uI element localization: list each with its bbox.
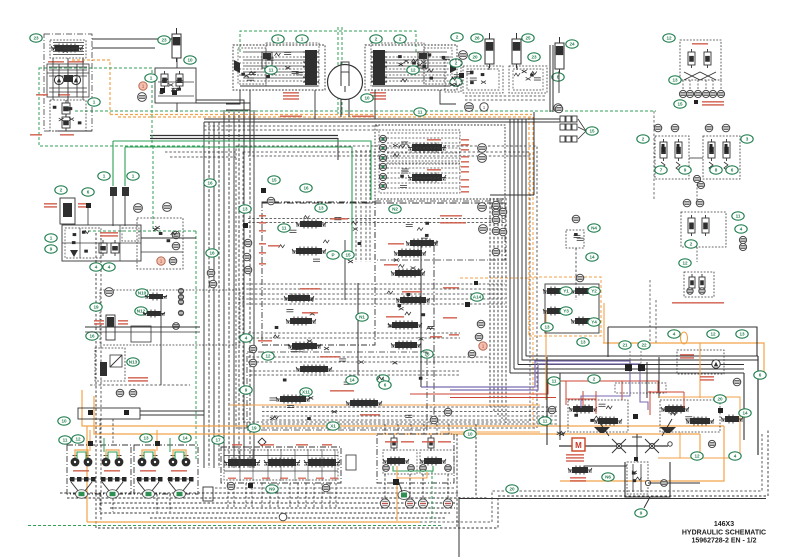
- svg-text:HYDRAULIC SCHEMATIC: HYDRAULIC SCHEMATIC: [682, 530, 766, 537]
- svg-text:9: 9: [50, 247, 53, 252]
- svg-text:1: 1: [150, 76, 153, 81]
- svg-text:X1: X1: [330, 424, 336, 429]
- svg-text:2: 2: [60, 188, 63, 193]
- svg-text:12: 12: [710, 332, 716, 337]
- svg-text:13: 13: [242, 207, 248, 212]
- svg-text:20: 20: [472, 55, 478, 60]
- svg-text:21: 21: [622, 343, 628, 348]
- svg-text:7: 7: [660, 168, 663, 173]
- svg-text:8: 8: [715, 168, 718, 173]
- svg-text:11: 11: [552, 379, 557, 384]
- svg-text:12: 12: [666, 36, 672, 41]
- svg-text:9: 9: [640, 511, 643, 516]
- svg-text:14: 14: [349, 378, 355, 383]
- svg-text:N6: N6: [605, 475, 611, 480]
- svg-text:16: 16: [303, 186, 309, 191]
- svg-text:1: 1: [277, 37, 280, 42]
- svg-text:4: 4: [108, 265, 111, 270]
- svg-text:N9: N9: [269, 487, 275, 492]
- svg-text:26: 26: [474, 36, 480, 41]
- svg-text:1: 1: [132, 174, 135, 179]
- svg-text:22: 22: [641, 343, 647, 348]
- svg-text:6: 6: [759, 373, 762, 378]
- svg-text:10: 10: [364, 96, 370, 101]
- svg-text:13: 13: [580, 340, 586, 345]
- svg-text:6: 6: [87, 190, 90, 195]
- svg-text:N2: N2: [392, 207, 398, 212]
- svg-text:P: P: [331, 253, 334, 258]
- svg-text:Y1: Y1: [563, 289, 569, 294]
- svg-text:17: 17: [215, 438, 221, 443]
- svg-text:14: 14: [182, 436, 188, 441]
- svg-text:13: 13: [739, 332, 745, 337]
- svg-text:Y3: Y3: [563, 309, 569, 314]
- svg-text:12: 12: [75, 437, 81, 442]
- svg-text:4: 4: [673, 332, 676, 337]
- svg-text:15: 15: [589, 129, 595, 134]
- svg-text:14: 14: [589, 255, 595, 260]
- svg-text:20: 20: [717, 397, 723, 402]
- svg-text:11: 11: [736, 214, 741, 219]
- svg-text:23: 23: [531, 55, 537, 60]
- svg-text:10: 10: [187, 58, 193, 63]
- svg-text:13: 13: [318, 206, 324, 211]
- svg-text:9: 9: [245, 388, 248, 393]
- svg-text:146X3: 146X3: [714, 521, 734, 528]
- svg-text:12: 12: [694, 454, 700, 459]
- svg-text:A14: A14: [473, 295, 482, 300]
- svg-text:4: 4: [734, 454, 737, 459]
- svg-text:6: 6: [384, 383, 387, 388]
- svg-text:2: 2: [375, 37, 378, 42]
- svg-text:10: 10: [61, 419, 67, 424]
- svg-text:4: 4: [245, 336, 248, 341]
- svg-text:25: 25: [525, 36, 531, 41]
- svg-text:N13: N13: [129, 360, 138, 365]
- svg-text:2: 2: [455, 61, 458, 66]
- svg-text:16: 16: [207, 181, 213, 186]
- svg-text:19: 19: [93, 305, 99, 310]
- svg-text:4: 4: [740, 227, 743, 232]
- svg-text:N4: N4: [591, 226, 597, 231]
- svg-text:Y2: Y2: [591, 289, 597, 294]
- svg-text:11: 11: [418, 110, 423, 115]
- svg-text:13: 13: [143, 436, 149, 441]
- svg-text:11: 11: [282, 226, 287, 231]
- svg-text:1: 1: [301, 37, 304, 42]
- svg-text:6: 6: [731, 168, 734, 173]
- svg-text:15: 15: [345, 253, 351, 258]
- svg-text:15962728-2 EN - 1/2: 15962728-2 EN - 1/2: [692, 538, 757, 545]
- svg-text:19: 19: [251, 426, 257, 431]
- svg-text:1: 1: [103, 174, 106, 179]
- svg-text:2: 2: [456, 35, 459, 40]
- svg-text:M: M: [575, 441, 582, 450]
- svg-text:11: 11: [543, 419, 548, 424]
- svg-text:12: 12: [682, 261, 688, 266]
- svg-text:Y4: Y4: [591, 320, 597, 325]
- svg-text:23: 23: [33, 36, 39, 41]
- svg-text:15: 15: [271, 178, 277, 183]
- svg-text:12: 12: [410, 68, 416, 73]
- svg-text:13: 13: [672, 78, 678, 83]
- svg-text:20: 20: [509, 487, 515, 492]
- svg-text:15: 15: [677, 102, 683, 107]
- svg-text:23: 23: [161, 38, 167, 43]
- svg-text:16: 16: [209, 251, 215, 256]
- svg-text:24: 24: [569, 42, 575, 47]
- svg-text:11: 11: [269, 68, 274, 73]
- svg-text:14: 14: [742, 411, 748, 416]
- svg-text:X11: X11: [302, 390, 310, 395]
- svg-text:2: 2: [642, 137, 645, 142]
- svg-text:2: 2: [690, 242, 693, 247]
- svg-text:10: 10: [467, 432, 473, 437]
- svg-text:1: 1: [93, 100, 96, 105]
- svg-text:9: 9: [684, 168, 687, 173]
- svg-text:12: 12: [265, 354, 271, 359]
- svg-text:11: 11: [63, 438, 68, 443]
- svg-text:N1: N1: [359, 315, 365, 320]
- svg-text:2: 2: [399, 37, 402, 42]
- svg-text:2: 2: [593, 377, 596, 382]
- svg-text:16: 16: [89, 334, 95, 339]
- svg-text:3: 3: [746, 137, 749, 142]
- svg-text:1: 1: [50, 236, 53, 241]
- svg-text:13: 13: [544, 325, 550, 330]
- svg-text:4: 4: [95, 265, 98, 270]
